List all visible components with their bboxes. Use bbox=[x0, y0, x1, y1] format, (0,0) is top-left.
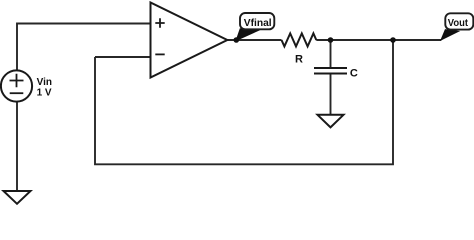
node label Vout bbox=[445, 13, 473, 29]
wire capacitor to ground bbox=[330, 74, 332, 115]
resistor R bbox=[282, 33, 317, 46]
capacitor C bbox=[314, 68, 347, 74]
wire op-amp - input bbox=[95, 56, 151, 58]
svg-text:1 V: 1 V bbox=[37, 88, 52, 99]
label Vin value bbox=[37, 77, 52, 99]
flag pointer for Vfinal bbox=[236, 29, 258, 41]
voltage source V1 bbox=[1, 70, 32, 101]
svg-text:R: R bbox=[295, 53, 303, 65]
junction node at op-amp output bbox=[234, 37, 240, 43]
svg-text:C: C bbox=[350, 68, 358, 80]
junction node at feedback tap bbox=[390, 37, 396, 43]
node label Vfinal bbox=[240, 13, 274, 29]
ground (below capacitor) bbox=[318, 115, 344, 128]
wire Vin bottom to ground bbox=[16, 102, 18, 191]
wire feedback loop bbox=[95, 40, 393, 164]
wire op-amp output to resistor bbox=[227, 39, 282, 41]
flag pointer for Vout bbox=[441, 30, 459, 40]
op-amp U1 bbox=[151, 3, 228, 78]
svg-text:Vin: Vin bbox=[37, 77, 52, 88]
wire node to capacitor bbox=[330, 40, 332, 68]
ground (below source) bbox=[4, 191, 31, 204]
wire Vin top to op-amp + input bbox=[17, 24, 151, 71]
svg-text:Vout: Vout bbox=[448, 18, 469, 29]
junction node at R-C bbox=[328, 37, 334, 43]
wire resistor to Vout bbox=[316, 39, 441, 41]
svg-text:Vfinal: Vfinal bbox=[244, 18, 272, 29]
